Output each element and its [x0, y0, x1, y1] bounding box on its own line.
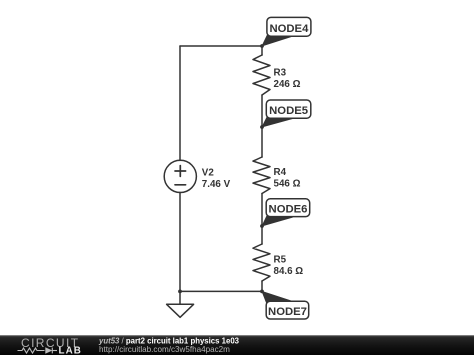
svg-text:R5: R5 [274, 254, 287, 265]
svg-text:LAB: LAB [59, 345, 82, 355]
svg-text:546 Ω: 546 Ω [274, 178, 301, 189]
svg-text:84.6 Ω: 84.6 Ω [274, 266, 304, 277]
svg-text:R3: R3 [274, 68, 287, 79]
svg-text:NODE5: NODE5 [269, 105, 308, 117]
svg-text:NODE4: NODE4 [269, 23, 309, 35]
svg-text:7.46 V: 7.46 V [202, 179, 231, 190]
svg-text:http://circuitlab.com/c3w5fha4: http://circuitlab.com/c3w5fha4pac2m [99, 345, 230, 354]
svg-text:R4: R4 [274, 167, 287, 178]
svg-text:NODE7: NODE7 [268, 306, 307, 318]
svg-text:246 Ω: 246 Ω [274, 79, 301, 90]
svg-text:V2: V2 [202, 167, 215, 178]
svg-text:NODE6: NODE6 [269, 204, 308, 216]
